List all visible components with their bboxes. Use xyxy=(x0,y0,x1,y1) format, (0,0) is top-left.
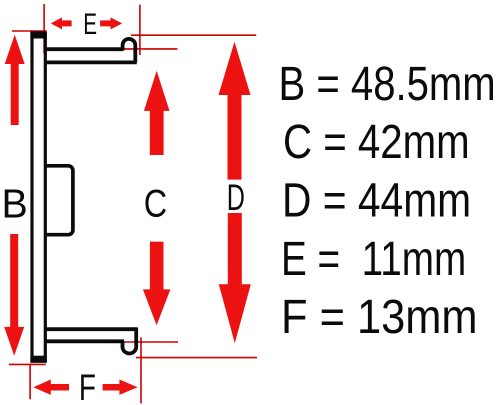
B bottom reference line xyxy=(9,363,46,365)
svg-text:E: E xyxy=(83,8,97,40)
C bottom reference line xyxy=(110,341,178,343)
C top reference line xyxy=(120,48,178,50)
F left reference line xyxy=(29,364,31,399)
cap face vertical bar xyxy=(32,33,45,361)
D bottom reference line xyxy=(136,357,257,359)
bottom flange hook curl xyxy=(123,327,137,353)
B up arrow xyxy=(5,35,25,125)
E right reference line xyxy=(139,5,141,55)
E right arrow xyxy=(100,17,122,29)
F left arrow xyxy=(33,380,69,395)
bottom flange top surface xyxy=(45,327,136,331)
top flange hook curl xyxy=(123,39,136,63)
svg-text:E = 11mm: E = 11mm xyxy=(281,232,466,286)
top flange top surface xyxy=(45,47,123,51)
C up arrow xyxy=(144,71,170,155)
F right arrow xyxy=(103,380,138,395)
E left arrow xyxy=(51,17,72,29)
B down arrow xyxy=(4,234,24,356)
svg-text:D = 44mm: D = 44mm xyxy=(282,174,471,227)
D up arrow xyxy=(219,42,251,180)
cap face top solid end xyxy=(30,31,46,38)
top flange bottom surface xyxy=(45,61,137,65)
E left reference line xyxy=(43,4,45,53)
svg-text:B: B xyxy=(2,181,28,227)
D top reference line xyxy=(131,34,256,36)
svg-text:F = 13mm: F = 13mm xyxy=(281,289,478,344)
retention tab xyxy=(44,166,73,235)
F right reference line xyxy=(140,338,142,404)
B top reference line xyxy=(12,30,47,32)
svg-text:D: D xyxy=(227,176,245,218)
svg-text:C: C xyxy=(144,182,167,225)
cap face bottom solid end xyxy=(30,356,46,363)
svg-text:B = 48.5mm: B = 48.5mm xyxy=(279,57,496,110)
bottom flange bottom surface xyxy=(45,339,124,343)
D down arrow xyxy=(219,213,251,343)
svg-text:F: F xyxy=(79,366,96,405)
C down arrow xyxy=(143,242,171,326)
svg-text:C = 42mm: C = 42mm xyxy=(283,115,470,168)
